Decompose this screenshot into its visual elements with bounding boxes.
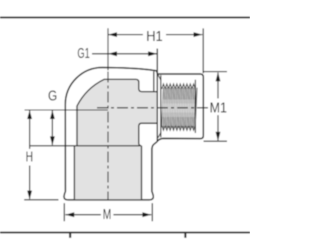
thread relief line [160, 75, 162, 137]
vertical extension line above body [107, 28, 109, 70]
horizontal centerline [97, 107, 209, 109]
dimension M1 [204, 72, 228, 142]
vertical centerline [107, 72, 109, 200]
bore (gray interior) fill [74, 79, 156, 199]
svg-text:G: G [48, 88, 57, 105]
svg-text:H1: H1 [146, 28, 163, 45]
top border [0, 17, 250, 19]
thread mid highlight [162, 100, 195, 118]
dimension H1 [108, 28, 203, 73]
svg-text:H: H [26, 149, 33, 166]
dimension G [25, 110, 108, 145]
dimension G1 [92, 53, 157, 55]
socket entry line + G extension [30, 145, 139, 147]
bottom border [0, 232, 250, 234]
bottom border tick 2 [184, 234, 186, 238]
thread shoulder face + G1 right extension [156, 49, 158, 141]
socket bore right line [141, 146, 143, 199]
thread flank lines [162, 87, 197, 127]
svg-text:M1: M1 [210, 100, 227, 117]
svg-text:G1: G1 [77, 45, 89, 62]
bottom border tick 1 [69, 234, 71, 238]
hub vertical line [153, 71, 155, 91]
dimension M [64, 203, 152, 221]
socket bore left line [73, 146, 75, 199]
thread start chamfer bottom [158, 132, 161, 137]
dimension H [24, 111, 58, 200]
thread start chamfer top [158, 75, 161, 80]
thread crest zigzag top [162, 84, 196, 89]
bore lower step outline [139, 123, 157, 146]
elbow body outline [64, 68, 203, 200]
thread chamfer line [194, 80, 196, 133]
svg-text:M: M [103, 206, 112, 223]
thread crest zigzag bottom [162, 126, 196, 131]
bore upper-left/top outline [77, 79, 157, 145]
